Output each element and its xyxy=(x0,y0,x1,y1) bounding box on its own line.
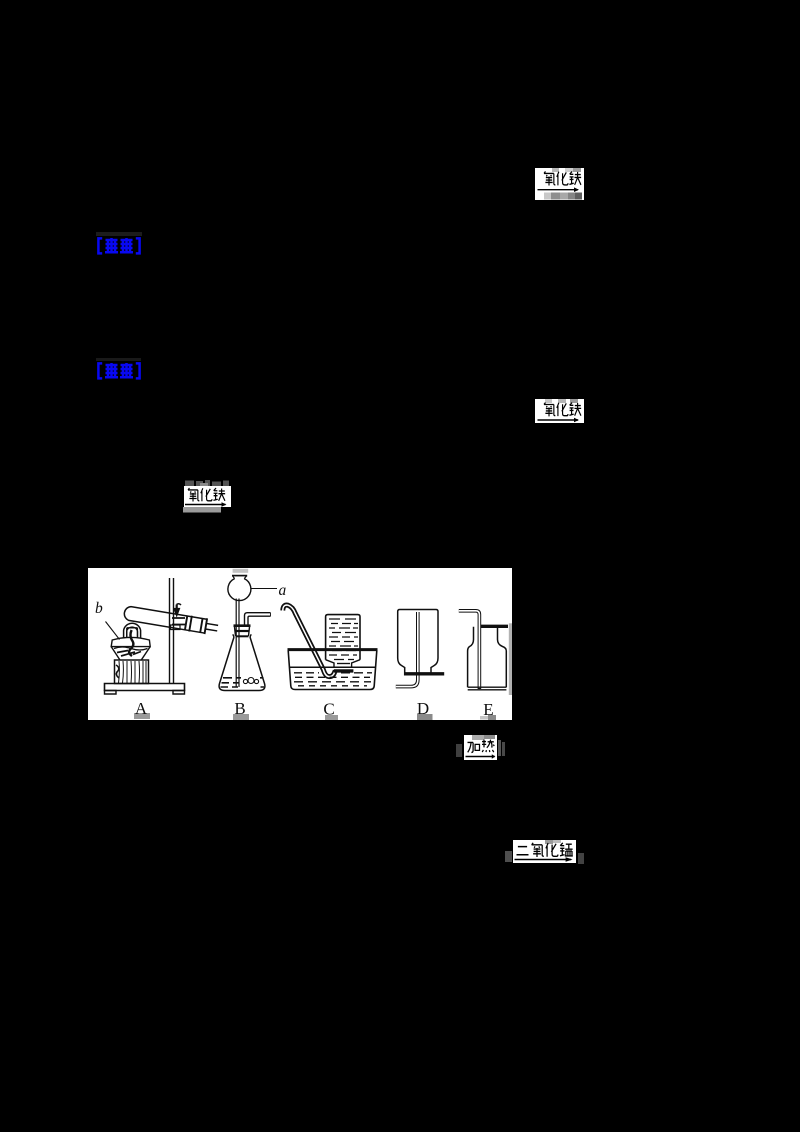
svg-text:E: E xyxy=(483,700,493,719)
svg-text:A: A xyxy=(135,699,148,718)
svg-text:a: a xyxy=(279,582,287,599)
svg-text:B: B xyxy=(234,699,245,718)
svg-text:b: b xyxy=(95,600,103,617)
svg-text:D: D xyxy=(417,699,429,718)
svg-text:C: C xyxy=(323,700,334,719)
